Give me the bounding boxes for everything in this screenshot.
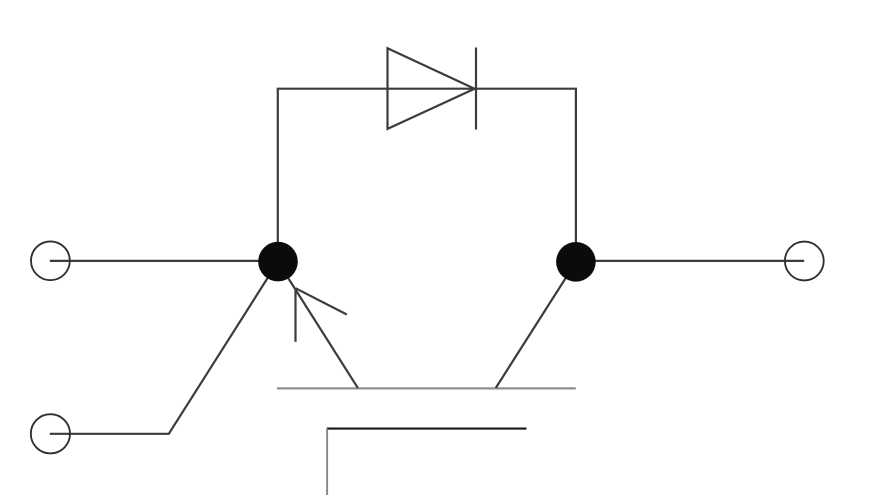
wire left horizontal (terminal 1 to node A) bbox=[50, 260, 278, 262]
terminal 1 circle (left) bbox=[31, 241, 70, 280]
IGBT Q1 collector diagonal (node A to channel) bbox=[278, 262, 358, 388]
IGBT Q1 arrow barb vertical bbox=[294, 288, 296, 342]
diode D1 cathode bar bbox=[475, 48, 477, 130]
wire top loop: left vertical, top horizontal, right vertical bbox=[278, 89, 576, 262]
wire right horizontal (node B to terminal 3) bbox=[576, 260, 804, 262]
IGBT Q1 arrow barb diagonal bbox=[296, 288, 347, 314]
node B junction dot (right) bbox=[556, 242, 596, 282]
IGBT Q1 emitter diagonal (node B to channel) bbox=[496, 262, 576, 388]
IGBT Q1 channel bar bbox=[277, 387, 576, 389]
IGBT Q1 gate vertical lead bbox=[326, 429, 328, 495]
IGBT Q1 gate horizontal bbox=[327, 428, 527, 430]
wire lower-left (terminal 2 to node A) bbox=[50, 262, 278, 434]
terminal 3 circle (right) bbox=[785, 242, 824, 281]
terminal 2 circle (lower left) bbox=[31, 414, 70, 453]
diode D1 triangle (anode) bbox=[388, 48, 475, 129]
node A junction dot (left) bbox=[258, 242, 298, 282]
